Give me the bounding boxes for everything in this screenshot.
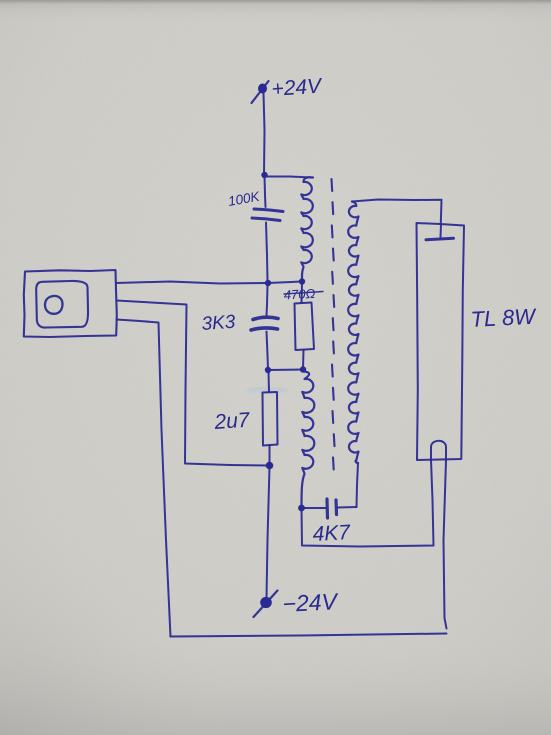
- svg-text:2u7: 2u7: [213, 409, 252, 435]
- capacitor C4 4K7 left lead: [302, 507, 326, 509]
- wire: node E to -24V terminal: [267, 467, 270, 598]
- wire: transducer middle to node E: [117, 301, 269, 466]
- component 2u7 lead bottom: [269, 446, 271, 465]
- capacitor C1 100K plates: [252, 209, 283, 221]
- transformer T1 core (dashed line): [332, 179, 335, 469]
- capacitor C2 3K3 plates: [251, 317, 278, 330]
- wire: bottom rail: [171, 634, 447, 637]
- label 470Ω: [283, 286, 323, 303]
- transducer aperture circle: [45, 296, 63, 314]
- svg-text:3K3: 3K3: [201, 312, 237, 335]
- -24V supply terminal: [254, 591, 278, 618]
- svg-text:TL 8W: TL 8W: [470, 304, 538, 332]
- svg-text:4K7: 4K7: [312, 521, 352, 546]
- component 2u7 body: [263, 392, 278, 446]
- capacitor C4 4K7 right lead: [338, 506, 357, 509]
- node D junction: [298, 505, 305, 512]
- wire: secondary bottom to capacitor C4 right: [357, 463, 359, 507]
- wire: node B to R1 top node: [268, 282, 302, 284]
- transducer box outer: [24, 270, 117, 337]
- tube bottom electrode: [431, 441, 446, 460]
- junction: primary bottom / R1 top: [299, 278, 305, 284]
- transformer T1 primary lower winding: [302, 372, 315, 507]
- node B junction: [265, 280, 271, 286]
- wire: secondary top to tube top: [352, 200, 442, 224]
- wire: node B to capacitor C2: [267, 285, 268, 316]
- svg-text:+24V: +24V: [271, 74, 324, 101]
- tube top electrode: [426, 224, 454, 240]
- wire: capacitor C1 to node B: [266, 223, 268, 281]
- resistor R1 470Ω lead top: [301, 283, 304, 303]
- wire: node C to primary lower node: [268, 369, 303, 372]
- resistor R1 470Ω lead bottom: [302, 350, 305, 369]
- wire: +24V terminal to node A: [264, 93, 265, 174]
- junction: R1 bottom / primary lower top: [300, 366, 306, 372]
- wire: node A to primary winding top: [266, 177, 311, 178]
- fluorescent tube TL 8W body: [417, 223, 465, 460]
- wire: transducer top to node B: [117, 282, 267, 284]
- wire: capacitor C2 to node C: [267, 332, 269, 370]
- capacitor C4 4K7 plates: [327, 499, 337, 518]
- wire: node D to tube bottom-left lead: [302, 460, 434, 547]
- node E junction: [266, 462, 274, 470]
- wire: node A to capacitor C1: [265, 176, 266, 207]
- component 2u7 lead top: [268, 372, 271, 392]
- +24V supply terminal: [252, 81, 269, 103]
- transducer box inner: [36, 281, 88, 328]
- wire: transducer bottom to bottom rail: [117, 320, 171, 637]
- node A junction: [261, 172, 267, 178]
- svg-text:−24V: −24V: [282, 588, 340, 617]
- transformer T1 primary upper winding: [301, 177, 313, 281]
- resistor R1 470Ω body: [295, 303, 315, 351]
- transformer T1 secondary winding: [348, 202, 358, 464]
- node C junction: [265, 367, 271, 373]
- wire: tube bottom-right lead down: [444, 460, 447, 629]
